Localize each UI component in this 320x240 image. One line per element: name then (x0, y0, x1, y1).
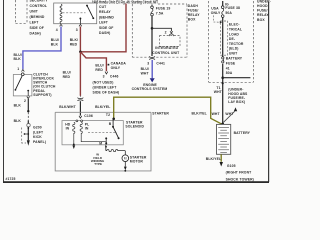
security control unit dashed box (16, 0, 28, 24)
arrow to engine controls (150, 78, 155, 82)
svg-text:BLU/: BLU/ (14, 53, 22, 57)
svg-text:TYPE: TYPE (94, 162, 102, 166)
arrow up to abs box (234, 107, 237, 111)
svg-text:C106: C106 (84, 114, 93, 118)
branch to ICU pin 2 (152, 28, 171, 31)
svg-text:(BEHIND: (BEHIND (99, 15, 114, 19)
svg-text:SOLENOID: SOLENOID (125, 125, 144, 129)
svg-text:LEFT: LEFT (30, 21, 40, 25)
svg-text:TECTOR: TECTOR (229, 42, 244, 46)
svg-text:SECURITY: SECURITY (30, 0, 49, 3)
inline connector (78, 98, 83, 99)
svg-text:RELAY: RELAY (188, 13, 200, 17)
cut relay coil (60, 4, 62, 23)
wire BLU/RED branch to C446 (80, 52, 106, 71)
starter motor (122, 155, 129, 162)
svg-text:WHT: WHT (225, 112, 234, 116)
svg-text:3: 3 (76, 28, 78, 32)
cut relay pin 4 arrow (60, 24, 63, 26)
svg-text:SUPPORT): SUPPORT) (33, 93, 51, 97)
wire WHT diagonal (224, 111, 235, 122)
svg-text:RELAY: RELAY (99, 10, 111, 14)
svg-text:M: M (124, 157, 127, 161)
svg-text:SIDE OF: SIDE OF (99, 26, 113, 30)
svg-text:ONLY: ONLY (111, 66, 121, 70)
wire to ICU (151, 16, 153, 56)
G200 ring terminal (27, 124, 30, 127)
fuse 19 (151, 6, 154, 9)
wire BLU/BLK blue (23, 27, 61, 70)
clutch switch top terminal (21, 73, 24, 76)
svg-text:C446: C446 (110, 75, 119, 79)
svg-text:3: 3 (103, 75, 105, 79)
svg-text:LAY BOX): LAY BOX) (228, 100, 245, 104)
svg-text:BATTERY: BATTERY (226, 57, 243, 61)
connector C106 arrow (79, 116, 82, 118)
svg-text:CUT: CUT (99, 5, 107, 9)
svg-text:DASH): DASH) (30, 32, 41, 36)
svg-text:1: 1 (17, 67, 19, 71)
svg-text:LOAD: LOAD (229, 32, 240, 36)
figure border bottom (3, 181, 269, 183)
svg-text:C441: C441 (156, 62, 165, 66)
cut relay mechanical link (63, 12, 86, 14)
wire BLK/RED from top edge (81, 4, 126, 52)
svg-text:IN: IN (85, 127, 89, 131)
svg-text:DE-: DE- (229, 37, 235, 41)
svg-text:(RIGHT FRONT: (RIGHT FRONT (226, 171, 253, 175)
svg-text:RED: RED (70, 43, 78, 47)
svg-text:WHT: WHT (212, 112, 221, 116)
clutch switch pin 1 arrow (22, 70, 25, 72)
svg-text:CONTROL: CONTROL (30, 4, 48, 8)
not used label (93, 81, 120, 95)
svg-text:CONTROLS SYSTEM: CONTROLS SYSTEM (132, 87, 168, 91)
battery junction dot (221, 123, 224, 126)
dash fuse relay box dashed outline (132, 4, 187, 57)
svg-text:1995 Honda Civic EX Fig. 46: S: 1995 Honda Civic EX Fig. 46: Starting Ci… (92, 0, 158, 5)
svg-text:BLU/: BLU/ (51, 38, 59, 42)
clutch interlock switch label (33, 72, 56, 97)
junction dot (27, 127, 29, 129)
starter box (55, 112, 151, 171)
svg-text:BLK/WHT: BLK/WHT (59, 105, 76, 109)
connector C441 (149, 56, 154, 57)
svg-text:BLK: BLK (14, 104, 22, 108)
svg-text:(UNDER LEFT: (UNDER LEFT (93, 86, 118, 90)
canada only marker (108, 64, 110, 66)
ELD dashed box (220, 21, 227, 55)
svg-text:(ELD): (ELD) (229, 47, 239, 51)
wire BLK lower (27, 120, 29, 140)
svg-text:4: 4 (56, 28, 58, 32)
splice dot (27, 110, 29, 112)
svg-text:INTEGRATED: INTEGRATED (155, 46, 178, 50)
under-hood fuse relay box dashed outline (209, 1, 254, 82)
junction node (79, 51, 82, 54)
svg-text:7.5A: 7.5A (156, 12, 164, 16)
fuse 38 (221, 6, 224, 9)
svg-text:RELAY: RELAY (257, 13, 269, 17)
dash fuse relay box label (188, 4, 200, 22)
svg-text:SIDE OF: SIDE OF (30, 26, 44, 30)
svg-text:BLK/YEL: BLK/YEL (206, 157, 221, 161)
svg-text:WHT: WHT (141, 71, 150, 75)
svg-text:B: B (109, 122, 112, 126)
ground G105 (220, 162, 224, 167)
svg-text:UNIT: UNIT (229, 52, 238, 56)
solenoid input terminals (76, 120, 78, 122)
svg-text:(BEHIND: (BEHIND (30, 15, 45, 19)
svg-text:MOTOR: MOTOR (130, 160, 144, 164)
cut relay box (54, 3, 97, 24)
svg-text:41: 41 (226, 66, 230, 70)
svg-text:IN: IN (66, 127, 70, 131)
svg-text:BLU/: BLU/ (141, 67, 149, 71)
G200 dashed bracket (22, 128, 26, 144)
svg-text:2: 2 (165, 30, 167, 34)
svg-text:BATTERY: BATTERY (234, 131, 251, 135)
junction dot (221, 76, 224, 79)
wire from fuse 19 (151, 5, 153, 7)
svg-text:G105: G105 (227, 164, 236, 168)
wire BLK/YEL loop to starter (114, 97, 222, 124)
svg-text:SIDE OF DASH): SIDE OF DASH) (93, 90, 120, 94)
svg-text:BLK: BLK (51, 43, 59, 47)
svg-text:3: 3 (147, 62, 149, 66)
svg-text:PANEL): PANEL) (33, 140, 46, 144)
cut relay label (99, 5, 114, 35)
connector C446 arrow (105, 72, 108, 74)
wire to starter motor (124, 151, 126, 155)
G200 second lead dots (24, 133, 26, 135)
battery (217, 124, 231, 154)
starter box top line (55, 111, 151, 113)
under-hood fuse relay box label (257, 0, 271, 22)
wire BLK dashed section (27, 112, 29, 120)
svg-text:BOX: BOX (188, 18, 196, 22)
svg-text:FUSE 38: FUSE 38 (225, 6, 240, 10)
cut relay contact (79, 18, 81, 20)
solenoid switch blade (113, 127, 119, 138)
svg-text:FUSE: FUSE (226, 62, 236, 66)
solenoid mechanical link (88, 132, 117, 134)
hold-in coil ground (73, 140, 75, 145)
field winding (106, 150, 125, 152)
svg-text:DASH: DASH (188, 4, 199, 8)
clutch switch contact (27, 90, 29, 92)
cut relay switch blade (87, 6, 93, 19)
T2 terminal dot (112, 118, 115, 121)
ground G200 arrow (27, 140, 30, 146)
W field winding type label (91, 153, 105, 167)
wire through ELD (222, 17, 224, 56)
wire BLK/WHT to starter (79, 101, 81, 115)
ICU pin 2 socket (169, 34, 173, 36)
wire BLU/RED label (95, 64, 103, 72)
svg-text:DASH): DASH) (99, 31, 110, 35)
svg-text:BLK: BLK (14, 119, 22, 123)
svg-text:SHOCK TOWER): SHOCK TOWER) (226, 177, 254, 181)
ground G200 label (33, 126, 46, 144)
wire BLK to ground (27, 99, 29, 111)
svg-text:LEFT: LEFT (99, 21, 109, 25)
svg-text:G200: G200 (33, 126, 42, 130)
pull-in coil (80, 122, 82, 140)
svg-text:BLU/: BLU/ (95, 64, 103, 68)
clutch interlock switch box (13, 75, 32, 96)
svg-text:RED: RED (63, 75, 71, 79)
clutch switch pin 2 arrow (27, 97, 30, 99)
solenoid B terminal (112, 119, 114, 127)
wire BLU/RED label on main wire (63, 71, 71, 80)
wire BLK/RED label (70, 38, 78, 47)
solenoid M terminal (105, 137, 107, 139)
svg-text:(NOT USED): (NOT USED) (93, 81, 114, 85)
hold-in coil (73, 122, 75, 140)
svg-text:80A: 80A (226, 71, 233, 75)
svg-text:BLK: BLK (14, 57, 22, 61)
svg-text:CONTROL UNIT: CONTROL UNIT (152, 51, 180, 55)
svg-text:(LEFT: (LEFT (33, 130, 44, 134)
battery fuse 41 (222, 57, 224, 59)
svg-text:M: M (99, 141, 102, 145)
wire battery negative (220, 154, 222, 162)
usa only leader (214, 15, 220, 22)
wire M to field winding (105, 145, 107, 151)
security control unit label (30, 0, 49, 36)
svg-text:50A: 50A (225, 11, 232, 15)
svg-text:STARTER: STARTER (152, 112, 169, 116)
svg-text:CANADA: CANADA (111, 61, 127, 65)
svg-text:FUSE/: FUSE/ (257, 9, 268, 13)
under-hood abs label (228, 88, 248, 105)
svg-text:TRICAL: TRICAL (229, 28, 242, 32)
ELD label (229, 23, 244, 56)
svg-text:BLK/YEL: BLK/YEL (95, 105, 110, 109)
wire from battery to fuse 38 (222, 1, 224, 6)
svg-text:ELEC-: ELEC- (229, 23, 240, 27)
wire BLK/RED from relay pin 3 (79, 27, 81, 52)
figure border right (268, 2, 270, 182)
integrated control unit dashed box (160, 36, 181, 47)
wire BLU/BLK label 2 (14, 53, 22, 61)
svg-text:BLU/: BLU/ (63, 71, 71, 75)
svg-text:WHT: WHT (214, 90, 223, 94)
svg-text:FUSE/: FUSE/ (188, 8, 199, 12)
svg-text:BOX: BOX (257, 18, 265, 22)
junction dot (151, 27, 154, 30)
svg-text:2: 2 (24, 99, 26, 103)
cut relay pin 3 arrow (79, 24, 82, 26)
wire BLK/RED down to connector (79, 52, 81, 96)
svg-text:ONLY: ONLY (211, 11, 221, 15)
wire below fuse 41 (222, 64, 224, 124)
terminal T1 (222, 82, 224, 84)
wire BLU/BLK label (51, 38, 59, 47)
starter motor ground (124, 162, 126, 167)
wire BLU/WHT (151, 60, 153, 78)
figure border left (3, 0, 5, 182)
svg-text:RED: RED (95, 68, 103, 72)
solenoid box (62, 121, 123, 145)
svg-text:UNDER-: UNDER- (257, 0, 271, 3)
svg-text:FUSE 19: FUSE 19 (156, 6, 171, 10)
svg-text:UNIT: UNIT (30, 10, 39, 14)
branch wire right (223, 77, 251, 79)
svg-text:HOOD: HOOD (257, 4, 268, 8)
svg-text:KICK: KICK (33, 135, 42, 139)
pull-in coil to M (81, 140, 106, 142)
svg-text:T2: T2 (106, 113, 110, 117)
svg-text:USA: USA (211, 6, 219, 10)
svg-text:#1725: #1725 (6, 177, 16, 181)
clutch switch blade (15, 76, 22, 90)
svg-text:BLK/YEL: BLK/YEL (192, 111, 207, 115)
svg-text:BLK/: BLK/ (70, 38, 78, 42)
